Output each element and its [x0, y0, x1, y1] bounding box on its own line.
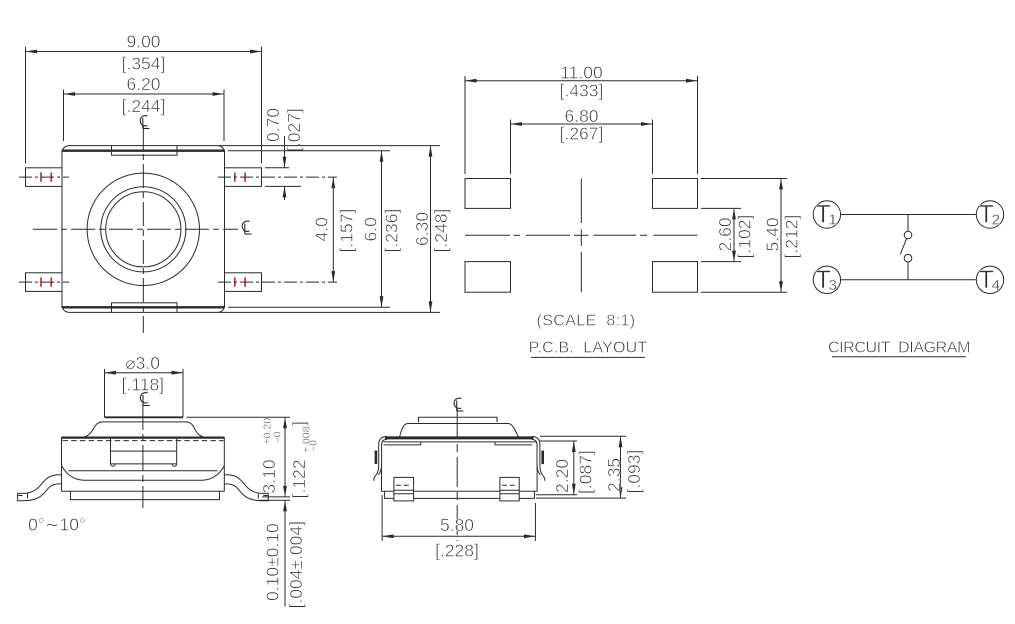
- wire T3-T4: [841, 279, 977, 281]
- svg-text:3.10: 3.10: [259, 459, 279, 493]
- svg-text:5.80: 5.80: [440, 515, 474, 535]
- dimension 5.40: [701, 179, 787, 293]
- svg-text:[.244]: [.244]: [122, 96, 166, 116]
- svg-text:]: ]: [289, 421, 309, 426]
- front dome: [400, 424, 519, 438]
- dimension 0.70: [265, 136, 301, 200]
- skirt band curve: [62, 466, 225, 481]
- pad bottom-left: [465, 262, 511, 293]
- dimension 2.60: [701, 208, 741, 261]
- wire T1-T2: [841, 214, 977, 216]
- stem sides / dia3.0 extension lines: [105, 369, 184, 417]
- front right side hook: [532, 437, 545, 481]
- dimension 5.80: [382, 495, 535, 541]
- inner contact window: [111, 438, 177, 467]
- switch contact circle bottom: [904, 254, 912, 262]
- switch contact circle top: [904, 231, 912, 239]
- front lead left: [394, 477, 414, 501]
- switch contact stub bottom: [907, 262, 909, 280]
- dimension 2.35: [536, 436, 626, 498]
- side body dashed cover line: [63, 440, 224, 442]
- front view centerline: [456, 409, 458, 541]
- svg-text:4: 4: [992, 277, 1000, 294]
- pad top-left: [465, 179, 511, 209]
- svg-text:[.102]: [.102]: [734, 215, 754, 259]
- svg-text:11.00: 11.00: [560, 63, 603, 83]
- svg-text:1: 1: [829, 212, 837, 229]
- front cover inner line: [384, 441, 536, 443]
- body bottom line: [62, 490, 225, 492]
- lead row centerlines: [19, 177, 337, 282]
- svg-text:2.60: 2.60: [715, 217, 735, 251]
- front left side hook: [374, 437, 387, 481]
- top view bottom tab: [112, 303, 178, 313]
- svg-text:CIRCUIT DIAGRAM: CIRCUIT DIAGRAM: [828, 340, 970, 357]
- front base strip: [385, 491, 535, 498]
- terminal lead top-left: [26, 168, 63, 187]
- svg-text:P.C.B. LAYOUT: P.C.B. LAYOUT: [529, 340, 648, 357]
- side body sides: [62, 437, 225, 491]
- svg-text:4.0: 4.0: [311, 217, 331, 242]
- centerline symbol front view: [454, 398, 463, 411]
- red crimp marks leads: [41, 172, 245, 286]
- svg-text:[.093]: [.093]: [624, 450, 644, 494]
- terminal lead top-right: [225, 168, 262, 187]
- centerline symbol top: [140, 116, 149, 129]
- right gull-wing lead: [224, 475, 268, 501]
- stem top face: [105, 416, 184, 418]
- dimension 3.10: [187, 417, 291, 497]
- svg-text:0.10±0.10: 0.10±0.10: [262, 523, 282, 601]
- terminal T3: [813, 266, 840, 293]
- svg-text:9.00: 9.00: [126, 32, 160, 52]
- svg-text:6.20: 6.20: [126, 74, 160, 94]
- centerline symbol side view: [140, 393, 149, 406]
- front cover heavy top: [385, 436, 534, 439]
- dimension 6.80: [511, 120, 653, 175]
- dimension 0.10: [259, 500, 291, 606]
- svg-text:[.236]: [.236]: [382, 209, 402, 253]
- svg-text:[.267]: [.267]: [560, 124, 604, 144]
- svg-text:2.35: 2.35: [604, 458, 624, 492]
- top view cover outline: [62, 146, 225, 313]
- side body top heavy line: [62, 437, 225, 439]
- svg-text:[.087]: [.087]: [576, 450, 596, 494]
- svg-text:[.248]: [.248]: [431, 209, 451, 253]
- svg-text:6.30: 6.30: [412, 212, 432, 246]
- svg-text:[.004±.004]: [.004±.004]: [286, 521, 306, 608]
- svg-text:[.354]: [.354]: [122, 54, 166, 74]
- svg-text:3: 3: [829, 277, 837, 294]
- svg-text:[.212]: [.212]: [782, 215, 802, 259]
- front body bottom: [381, 490, 537, 492]
- terminal T2: [976, 201, 1003, 228]
- svg-text:[.228]: [.228]: [435, 541, 479, 561]
- pad top-right: [653, 179, 698, 209]
- dimension 6.30: [218, 146, 440, 313]
- top view top tab: [112, 146, 178, 156]
- svg-text:[.122: [.122: [289, 460, 309, 499]
- dimension 6.20: [64, 90, 225, 142]
- dimension dia 3.0: [105, 371, 184, 375]
- side view centerline: [142, 404, 144, 508]
- dimension 6.0: [228, 151, 390, 308]
- svg-text:2: 2: [992, 212, 1000, 229]
- terminal T4: [976, 266, 1003, 293]
- pcb centerlines: [465, 234, 698, 236]
- svg-text:0°∼10°: 0°∼10°: [28, 515, 86, 535]
- centerline symbol right: [242, 221, 251, 234]
- svg-text:−0: −0: [272, 431, 284, 443]
- terminal lead bottom-right: [225, 273, 262, 292]
- top view main centerlines: [33, 126, 238, 333]
- skirt band top line: [69, 470, 218, 472]
- pad bottom-right: [653, 262, 698, 293]
- front cover notches: [384, 442, 533, 445]
- dimension 11.00: [465, 76, 698, 174]
- svg-text:⌀3.0: ⌀3.0: [125, 353, 160, 373]
- svg-text:−0: −0: [308, 440, 320, 452]
- svg-text:0.70: 0.70: [263, 108, 283, 142]
- circuit terminal labels: [816, 201, 1000, 294]
- front stem: [419, 417, 498, 422]
- switch contact stub top: [907, 215, 909, 232]
- terminal T1: [813, 201, 840, 228]
- svg-text:[.157]: [.157]: [336, 209, 356, 253]
- left gull-wing lead: [18, 475, 62, 501]
- dimension 2.20: [536, 436, 627, 495]
- terminal lead bottom-left: [26, 273, 63, 292]
- svg-text:[.118]: [.118]: [122, 375, 165, 395]
- front lead right: [500, 477, 519, 501]
- svg-text:[.433]: [.433]: [560, 81, 604, 101]
- front body sides: [382, 463, 538, 491]
- svg-text:6.0: 6.0: [361, 217, 381, 242]
- top view body heavy edges: [62, 151, 225, 308]
- dimension 4.0: [331, 177, 335, 282]
- svg-text:5.40: 5.40: [763, 217, 783, 251]
- dimension 9.00: [26, 47, 262, 164]
- top view body sides: [62, 150, 225, 308]
- top view button circles: [87, 173, 199, 285]
- svg-text:(SCALE 8:1): (SCALE 8:1): [536, 313, 635, 330]
- dome: [84, 422, 204, 437]
- switch arm: [900, 239, 906, 255]
- svg-text:2.20: 2.20: [552, 459, 572, 493]
- base strip: [71, 491, 220, 499]
